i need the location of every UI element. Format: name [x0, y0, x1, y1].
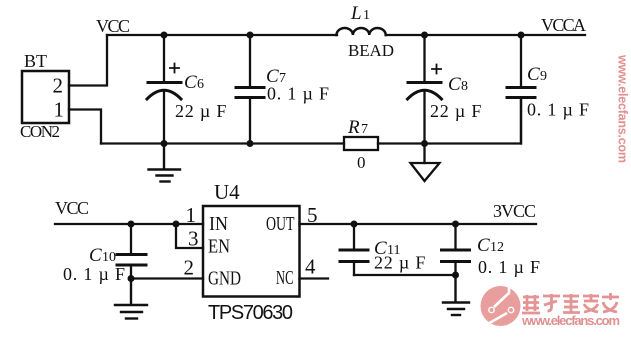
- svg-text:OUT: OUT: [266, 213, 295, 235]
- pin 2 label: [53, 74, 64, 98]
- pin 5 label: [307, 203, 318, 227]
- label C6: [184, 72, 204, 93]
- watermark url text: [521, 313, 620, 328]
- pin 3 label: [188, 227, 199, 251]
- label C11: [374, 238, 400, 259]
- svg-text:GND: GND: [208, 268, 241, 290]
- pin 2 label: [184, 256, 195, 280]
- capacitor C10: [117, 224, 146, 279]
- resistor R7: [344, 137, 378, 150]
- capacitor C8: [408, 35, 442, 144]
- pin 4 label: [305, 255, 316, 279]
- label CON2: [20, 122, 60, 141]
- label 22uF C8: [430, 101, 482, 121]
- svg-text:22 µ F: 22 µ F: [175, 101, 227, 121]
- wire NC stub: [300, 277, 329, 279]
- svg-text:0. 1 µ F: 0. 1 µ F: [63, 264, 126, 284]
- svg-text:C: C: [448, 74, 461, 95]
- wire C11 C12 bottoms: [354, 274, 456, 276]
- pin name IN: [209, 213, 228, 235]
- svg-text:1: 1: [186, 203, 197, 227]
- svg-text:VCC: VCC: [96, 16, 130, 36]
- label R7: [347, 117, 368, 138]
- inductor L1: [337, 28, 386, 35]
- svg-text:0: 0: [357, 153, 366, 172]
- junction C7 top: [247, 32, 254, 39]
- capacitor C12: [442, 224, 470, 275]
- wire junction to C9 bottom: [425, 99, 522, 144]
- svg-text:2: 2: [53, 74, 64, 98]
- svg-text:R: R: [347, 117, 360, 138]
- svg-text:TPS70630: TPS70630: [208, 302, 293, 324]
- svg-text:10: 10: [102, 250, 116, 265]
- svg-text:3: 3: [188, 227, 199, 251]
- label C10: [89, 245, 116, 266]
- svg-text:www.elecfans.com: www.elecfans.com: [616, 54, 630, 163]
- svg-text:1: 1: [363, 8, 370, 23]
- label C9: [527, 64, 547, 85]
- node VCCA: [541, 15, 586, 35]
- svg-text:8: 8: [461, 79, 468, 94]
- svg-text:12: 12: [490, 240, 504, 255]
- svg-text:NC: NC: [276, 267, 294, 289]
- label C7: [266, 66, 286, 87]
- svg-text:6: 6: [197, 77, 204, 92]
- svg-text:VCC: VCC: [55, 198, 89, 218]
- ground under C10: [115, 279, 147, 319]
- junction C7 bottom: [247, 140, 254, 147]
- wire OUT to 3VCC: [300, 223, 537, 225]
- svg-text:22 µ F: 22 µ F: [374, 253, 426, 273]
- svg-text:1: 1: [54, 98, 65, 122]
- svg-text:C: C: [184, 72, 197, 93]
- junction C10 top: [128, 221, 135, 228]
- svg-text:0. 1 µ F: 0. 1 µ F: [478, 257, 541, 277]
- node 3VCC: [493, 201, 536, 221]
- wire VCC to IN: [55, 223, 203, 225]
- ground under C12: [443, 275, 469, 315]
- op-amp U4 regulator box: [203, 206, 300, 297]
- svg-text:IN: IN: [209, 213, 228, 235]
- svg-text:C: C: [477, 235, 490, 256]
- wire pin2 to VCC rail: [69, 35, 107, 86]
- capacitor C9: [507, 35, 535, 144]
- wire R7 to junction: [378, 142, 425, 144]
- svg-text:U4: U4: [214, 180, 240, 204]
- svg-text:www.elecfans.com: www.elecfans.com: [521, 313, 620, 328]
- junction C6 bottom: [161, 140, 168, 147]
- label TPS70630: [208, 302, 293, 324]
- junction C6 top: [161, 32, 168, 39]
- svg-text:3VCC: 3VCC: [493, 201, 536, 221]
- junction C10 bottom: [128, 275, 135, 282]
- watermark vertical url right edge: [616, 54, 630, 163]
- ground under C6: [149, 144, 181, 182]
- label BEAD: [348, 41, 394, 60]
- junction C8 top: [421, 32, 428, 39]
- pin 1 label: [186, 203, 197, 227]
- svg-text:BEAD: BEAD: [348, 41, 394, 60]
- pin name GND: [208, 268, 241, 290]
- watermark logo elecfans: [481, 285, 521, 326]
- capacitor C7: [236, 35, 264, 144]
- pin name NC: [276, 267, 294, 289]
- svg-text:CON2: CON2: [20, 122, 60, 141]
- junction C12 bottom: [452, 272, 459, 279]
- junction R7 C8 ground: [421, 140, 428, 147]
- label C8: [448, 74, 468, 95]
- label 0.1uF C10: [63, 264, 126, 284]
- label 0 R7 value: [357, 153, 366, 172]
- svg-text:C: C: [89, 245, 102, 266]
- pin 1 label: [54, 98, 65, 122]
- pin name OUT: [266, 213, 295, 235]
- junction C11 top: [351, 221, 358, 228]
- svg-text:0. 1 µ F: 0. 1 µ F: [267, 84, 330, 104]
- wire EN branch: [176, 224, 203, 248]
- label 0.1uF C7: [267, 84, 330, 104]
- watermark chinese text: [522, 293, 619, 313]
- svg-text:7: 7: [361, 122, 368, 137]
- wire GND pin: [131, 277, 203, 279]
- svg-text:BT: BT: [24, 51, 47, 71]
- junction C9 top: [518, 32, 525, 39]
- node VCC bottom: [55, 198, 89, 218]
- label 0.1uF C9: [527, 100, 590, 120]
- pin name EN: [208, 236, 230, 258]
- junction C12 top: [452, 221, 459, 228]
- label 22uF C11: [374, 253, 426, 273]
- label BT: [24, 51, 47, 71]
- wire VCC top rail left segment: [107, 34, 337, 36]
- label L1: [350, 3, 370, 24]
- svg-text:2: 2: [184, 256, 195, 280]
- svg-text:L: L: [350, 3, 362, 24]
- wire pin1 to ground rail: [69, 110, 101, 144]
- node VCC: [96, 16, 130, 36]
- label 0.1uF C12: [478, 257, 541, 277]
- svg-text:4: 4: [305, 255, 316, 279]
- svg-text:0. 1 µ F: 0. 1 µ F: [527, 100, 590, 120]
- svg-text:9: 9: [540, 69, 547, 84]
- svg-text:VCCA: VCCA: [541, 15, 586, 35]
- capacitor C6: [147, 35, 181, 144]
- connector CON2 BT box: [22, 71, 69, 123]
- label C12: [477, 235, 504, 256]
- label U4: [214, 180, 240, 204]
- junction EN branch: [173, 221, 180, 228]
- wire bottom rail left: [101, 142, 344, 144]
- svg-text:EN: EN: [208, 236, 230, 258]
- label 22uF C6: [175, 101, 227, 121]
- capacitor C11: [340, 224, 368, 275]
- wire top rail right segment: [386, 34, 585, 36]
- svg-text:C: C: [527, 64, 540, 85]
- ground triangle analog: [411, 144, 440, 182]
- svg-text:22 µ F: 22 µ F: [430, 101, 482, 121]
